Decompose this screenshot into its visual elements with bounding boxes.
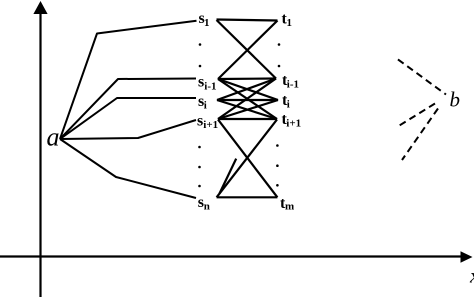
svg-text:b: b [450, 88, 461, 112]
svg-text:i: i [204, 100, 207, 112]
svg-text:i+1: i+1 [203, 119, 218, 131]
svg-text:i+1: i+1 [286, 118, 301, 130]
svg-text:1: 1 [204, 17, 210, 29]
svg-text:1: 1 [287, 17, 293, 29]
svg-text:i-1: i-1 [287, 79, 299, 91]
svg-text:n: n [204, 201, 210, 213]
svg-text:i: i [287, 99, 290, 111]
svg-text:a: a [47, 123, 60, 152]
svg-text:s: s [197, 113, 203, 130]
svg-text:i-1: i-1 [204, 81, 216, 93]
svg-text:x: x [469, 264, 474, 288]
svg-text:s: s [198, 74, 204, 91]
svg-text:m: m [285, 200, 294, 212]
